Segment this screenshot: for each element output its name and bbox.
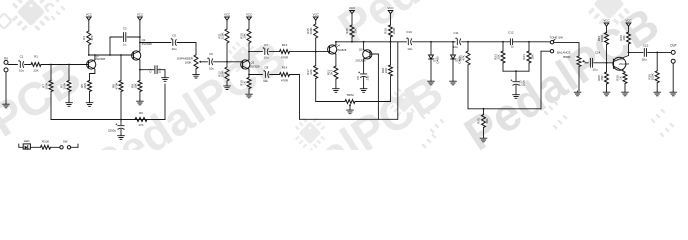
svg-text:2SC828: 2SC828 [619, 62, 630, 66]
svg-text:TRIM: TRIM [346, 93, 354, 97]
svg-text:100K: 100K [600, 35, 604, 42]
svg-text:470K: 470K [114, 82, 118, 89]
svg-text:10K: 10K [622, 35, 626, 40]
svg-text:C14: C14 [595, 50, 601, 54]
svg-text:220K: 220K [220, 32, 224, 39]
svg-text:10K: 10K [133, 83, 137, 88]
svg-text:10u: 10u [407, 47, 412, 51]
svg-text:10u: 10u [263, 56, 268, 60]
svg-text:2SC828: 2SC828 [250, 64, 261, 68]
svg-text:22K: 22K [496, 54, 500, 59]
svg-text:10K: 10K [242, 33, 246, 38]
svg-text:Q4: Q4 [336, 44, 340, 48]
svg-text:22K: 22K [384, 68, 388, 73]
svg-text:22K: 22K [33, 68, 38, 72]
svg-text:2SC828: 2SC828 [95, 57, 106, 61]
svg-text:R100: R100 [42, 140, 49, 144]
svg-text:VCC: VCC [86, 13, 92, 17]
svg-text:C9: C9 [356, 76, 360, 80]
svg-text:C7: C7 [264, 43, 268, 47]
svg-text:VCC: VCC [603, 19, 609, 23]
svg-text:10u: 10u [158, 68, 162, 73]
svg-text:B50K: B50K [563, 55, 570, 59]
svg-text:2K2: 2K2 [329, 70, 333, 76]
svg-text:VCC: VCC [137, 13, 143, 17]
svg-text:C1: C1 [20, 55, 24, 59]
svg-text:C5: C5 [172, 34, 176, 38]
svg-text:R19: R19 [384, 28, 388, 34]
svg-text:100K: 100K [62, 82, 66, 89]
svg-text:C11: C11 [453, 31, 459, 35]
svg-text:10K: 10K [485, 118, 489, 123]
svg-text:100K: 100K [185, 61, 192, 65]
svg-text:VCC: VCC [349, 6, 355, 10]
svg-text:2SC828: 2SC828 [336, 48, 347, 52]
svg-text:C3: C3 [123, 27, 127, 31]
svg-text:1n: 1n [511, 45, 515, 49]
svg-text:2SC828: 2SC828 [355, 59, 366, 63]
svg-text:Q6: Q6 [621, 57, 625, 61]
svg-text:BALANCE: BALANCE [557, 51, 571, 55]
svg-text:470R: 470R [281, 56, 289, 60]
svg-text:OUT: OUT [670, 43, 677, 47]
svg-text:100K: 100K [309, 27, 313, 34]
svg-text:10u: 10u [171, 47, 176, 51]
svg-text:10u: 10u [19, 68, 24, 72]
svg-text:10u: 10u [209, 67, 214, 71]
svg-text:C15: C15 [643, 43, 649, 47]
svg-text:10u: 10u [453, 45, 458, 49]
svg-text:470R: 470R [281, 78, 289, 82]
svg-text:TONE SW: TONE SW [550, 35, 564, 39]
svg-text:15K: 15K [600, 75, 604, 80]
svg-text:100K: 100K [220, 70, 224, 77]
svg-text:47K: 47K [90, 35, 94, 40]
svg-text:1n: 1n [123, 42, 127, 46]
svg-text:R25: R25 [477, 118, 481, 124]
svg-text:VCC: VCC [387, 6, 393, 10]
svg-text:R13: R13 [282, 43, 288, 47]
svg-text:C6: C6 [209, 52, 213, 56]
svg-text:Q5: Q5 [359, 48, 363, 52]
svg-text:100K: 100K [392, 27, 396, 34]
svg-text:VCC: VCC [224, 13, 230, 17]
svg-text:R24: R24 [522, 54, 526, 60]
svg-text:VCC: VCC [246, 13, 252, 17]
svg-text:47K: 47K [461, 55, 465, 60]
svg-text:10u: 10u [263, 79, 268, 83]
svg-text:10K: 10K [530, 54, 534, 59]
svg-text:1K8: 1K8 [83, 83, 87, 89]
svg-text:VCC: VCC [625, 19, 631, 23]
svg-text:OA90: OA90 [436, 56, 440, 64]
svg-text:R6: R6 [139, 111, 143, 115]
svg-text:10K: 10K [353, 28, 357, 33]
svg-text:1K: 1K [242, 81, 246, 85]
svg-text:18u: 18u [641, 58, 646, 62]
svg-text:100u: 100u [522, 79, 526, 86]
svg-text:R4: R4 [82, 36, 86, 40]
svg-text:22u: 22u [365, 75, 369, 80]
svg-text:10u: 10u [592, 68, 597, 72]
svg-text:LED: LED [24, 139, 30, 143]
svg-text:R18: R18 [345, 28, 349, 34]
svg-text:R1: R1 [34, 55, 38, 59]
svg-text:C12: C12 [508, 31, 514, 35]
svg-text:C4: C4 [149, 69, 153, 73]
svg-text:C8: C8 [264, 66, 268, 70]
svg-text:2200u: 2200u [108, 129, 116, 133]
svg-text:1K: 1K [618, 76, 622, 80]
svg-text:100K: 100K [651, 73, 655, 80]
svg-text:R14: R14 [282, 66, 288, 70]
svg-text:C10: C10 [406, 30, 412, 34]
svg-text:22K: 22K [309, 69, 313, 74]
svg-text:47K: 47K [138, 123, 143, 127]
svg-text:SW: SW [63, 140, 68, 144]
svg-text:VCC: VCC [313, 13, 319, 17]
svg-text:100K: 100K [44, 82, 48, 89]
